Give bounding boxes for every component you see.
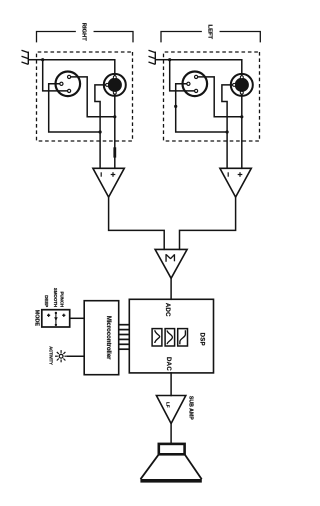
wire ground to XLR pin1 (LEFT) bbox=[170, 60, 195, 91]
svg-text:SUB AMP: SUB AMP bbox=[187, 396, 193, 420]
wire RIGHT amp output to summing amp bbox=[109, 197, 165, 249]
control bus DSP-microcontroller bbox=[119, 325, 130, 350]
svg-text:DSP: DSP bbox=[199, 333, 205, 346]
summing amplifier bbox=[155, 249, 187, 278]
wire mode switch to microcontroller bbox=[70, 317, 85, 319]
junction node B (RIGHT) bbox=[99, 130, 102, 133]
svg-text:Σ: Σ bbox=[163, 253, 179, 262]
DSP filter icon 2 (wide bell) bbox=[165, 329, 175, 346]
svg-text:MODE: MODE bbox=[33, 310, 39, 327]
speaker LS1 bbox=[140, 444, 201, 483]
chassis ground (LEFT channel) bbox=[149, 50, 170, 64]
wire XLR pin3 to amp inverting input (RIGHT) bbox=[49, 84, 100, 132]
junction node B (LEFT) bbox=[226, 130, 229, 133]
svg-text:DEEP: DEEP bbox=[44, 295, 49, 307]
mode selector switch S1 bbox=[42, 310, 70, 327]
svg-text:DAC: DAC bbox=[165, 357, 171, 371]
label MODE bbox=[33, 310, 39, 327]
junction node C (LEFT) bbox=[240, 115, 243, 118]
phone jack connector (RIGHT channel) bbox=[104, 74, 126, 96]
wire ground to XLR pin1 (RIGHT) bbox=[43, 60, 68, 91]
svg-text:LF: LF bbox=[165, 402, 170, 408]
wire jack ring to inverting rail (RIGHT) bbox=[95, 85, 106, 168]
XLR connector (LEFT channel) bbox=[183, 72, 208, 97]
phone jack connector (LEFT channel) bbox=[231, 74, 253, 96]
wire jack tip to non-inverting input (RIGHT) bbox=[114, 94, 116, 168]
wire sub amp to speaker bbox=[170, 424, 172, 444]
svg-text:ADC: ADC bbox=[164, 303, 170, 317]
wire DAC to sub amp bbox=[170, 373, 172, 396]
wire jack ring to inverting rail (LEFT) bbox=[222, 85, 233, 168]
chassis ground (RIGHT channel) bbox=[22, 50, 43, 64]
junction node C (RIGHT) bbox=[113, 115, 116, 118]
label PUNCH bbox=[60, 292, 65, 308]
wire XLR pin2 to amp non-inverting input (LEFT) bbox=[198, 77, 242, 117]
sub amplifier U3 (LF) bbox=[156, 396, 185, 424]
wire XLR pin2 to amp non-inverting input (RIGHT) bbox=[71, 77, 115, 117]
label SMOOTH bbox=[53, 288, 58, 307]
svg-text:ACTIVITY: ACTIVITY bbox=[49, 346, 54, 365]
svg-text:Microcontroller: Microcontroller bbox=[105, 316, 111, 360]
wire ground to jack sleeve (LEFT) bbox=[170, 60, 242, 76]
svg-text:RIGHT: RIGHT bbox=[81, 23, 87, 41]
wire ground to jack sleeve (RIGHT) bbox=[43, 60, 115, 76]
junction node D (LEFT) bbox=[174, 105, 177, 108]
junction node A (RIGHT) bbox=[41, 58, 44, 61]
op-amp U2 (RIGHT preamp) bbox=[93, 168, 124, 197]
label SUB AMP bbox=[187, 396, 193, 420]
wire jack tip to non-inverting input (LEFT) bbox=[241, 94, 243, 168]
svg-text:PUNCH: PUNCH bbox=[60, 292, 65, 308]
label ACTIVITY bbox=[49, 346, 54, 365]
DSP filter icon 1 (shelf curve) bbox=[178, 329, 188, 346]
DSP filter icon 3 (peak bell) bbox=[152, 329, 162, 346]
svg-text:LEFT: LEFT bbox=[207, 25, 213, 40]
RIGHT channel dashed enclosure bbox=[37, 52, 133, 141]
LEFT channel dashed enclosure bbox=[164, 52, 260, 141]
label DEEP bbox=[44, 295, 49, 307]
microcontroller block bbox=[84, 301, 119, 375]
bracket label LEFT bbox=[161, 25, 260, 42]
svg-text:SMOOTH: SMOOTH bbox=[53, 288, 58, 307]
junction node A (LEFT) bbox=[168, 58, 171, 61]
activity LED D1 bbox=[55, 350, 67, 362]
DSP block (ADC/DSP/DAC) bbox=[129, 299, 213, 373]
wire LED to microcontroller bbox=[67, 355, 84, 357]
wire summing amp to ADC bbox=[170, 278, 172, 299]
XLR connector (RIGHT channel) bbox=[56, 72, 81, 97]
wire XLR pin3 to amp inverting input (LEFT) bbox=[176, 84, 227, 132]
wire LEFT amp output to summing amp bbox=[180, 197, 236, 249]
op-amp U1 (LEFT preamp) bbox=[220, 168, 251, 197]
bracket label RIGHT bbox=[37, 23, 134, 42]
